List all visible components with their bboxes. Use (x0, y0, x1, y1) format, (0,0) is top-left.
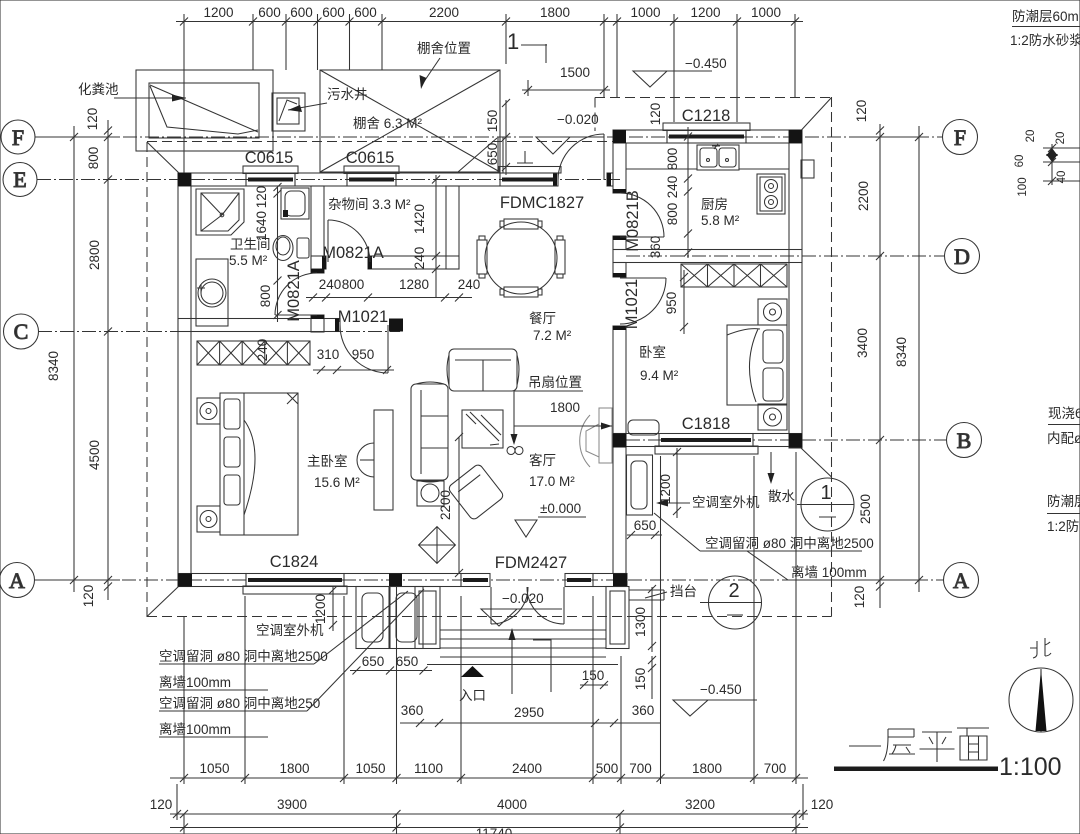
hip diagonal SW (147, 586, 179, 617)
svg-text:挡台: 挡台 (670, 584, 697, 599)
septic tank inner box (149, 83, 259, 138)
eave dashed outline top over kitchen (595, 97, 832, 99)
column F/4 (789, 130, 802, 143)
door M0821A leaf+arc (327, 220, 329, 262)
svg-text:15.6 M²: 15.6 M² (314, 475, 360, 490)
door FDMC1827 leaf+arc (603, 134, 605, 180)
svg-text:餐厅: 餐厅 (529, 311, 556, 326)
svg-text:800: 800 (665, 203, 680, 226)
storage south wall seg1 (311, 256, 326, 269)
axis circle A left (0, 563, 35, 598)
column C/2 (389, 319, 403, 332)
svg-text:5.5 M²: 5.5 M² (229, 253, 268, 268)
north label (1030, 638, 1051, 658)
svg-text:8340: 8340 (46, 351, 61, 381)
svg-text:1800: 1800 (692, 761, 722, 776)
svg-text:950: 950 (664, 292, 679, 315)
side table square (417, 481, 444, 506)
plant rotated square (419, 527, 456, 564)
svg-text:700: 700 (764, 761, 787, 776)
svg-text:2950: 2950 (514, 705, 544, 720)
svg-text:100: 100 (1017, 177, 1029, 196)
axis circle E left (3, 163, 37, 197)
south wall B seg1 (613, 434, 659, 447)
svg-text:M0821B: M0821B (624, 190, 642, 251)
svg-text:M0821A: M0821A (322, 244, 383, 262)
AC 650 650 dim line (350, 670, 432, 672)
svg-text:950: 950 (352, 347, 375, 362)
kitchen stove (757, 174, 785, 214)
eave dashed outline bottom (147, 616, 832, 618)
svg-text:600: 600 (290, 5, 313, 20)
svg-text:1100: 1100 (414, 761, 443, 776)
interior wall x3 bedroom2 west upper (613, 263, 626, 278)
hip diagonal at entry recess (458, 138, 497, 172)
door M0821B kitchen leaf+arc (620, 236, 664, 238)
title char 平 (920, 732, 955, 762)
svg-text:−0.450: −0.450 (685, 56, 727, 71)
south wall A seg3 (593, 574, 627, 587)
svg-text:3200: 3200 (685, 797, 715, 812)
porch right pillar (606, 587, 629, 649)
interior wall x3 kitchen west (613, 143, 626, 193)
column A/1 (178, 574, 192, 587)
svg-text:240: 240 (319, 277, 342, 292)
svg-text:棚舍位置: 棚舍位置 (417, 41, 471, 56)
door M0821 bath leaf+arc (275, 314, 317, 316)
fan dim lines 1800 (514, 390, 583, 392)
jamb FDMC left (553, 173, 557, 186)
axis circle D right (945, 239, 980, 274)
jamb FDMC right (607, 173, 611, 186)
svg-text:1050: 1050 (199, 761, 229, 776)
svg-text:20: 20 (1055, 132, 1067, 145)
svg-text:1200: 1200 (313, 594, 328, 624)
svg-text:厨房: 厨房 (701, 197, 728, 212)
dining chair east (555, 240, 565, 274)
svg-text:20: 20 (1025, 130, 1037, 143)
svg-text:D: D (954, 244, 970, 269)
south wall B seg2 (753, 434, 802, 447)
left dimension lines (73, 126, 75, 592)
svg-text:±0.000: ±0.000 (540, 501, 581, 516)
right AC 1200 dim line (676, 448, 678, 518)
svg-text:卧室: 卧室 (639, 344, 666, 360)
title underline (834, 767, 998, 772)
north wall E stub at kitchen (607, 173, 613, 186)
bathroom east wall lower (311, 315, 324, 332)
svg-text:1640: 1640 (254, 211, 269, 241)
svg-text:240: 240 (255, 339, 270, 362)
svg-text:F: F (954, 125, 966, 150)
right 1300 dim line (651, 587, 653, 652)
svg-text:2200: 2200 (856, 181, 871, 211)
master wardrobe (197, 341, 310, 365)
svg-text:污水井: 污水井 (327, 87, 368, 102)
washbasin (198, 279, 226, 307)
svg-text:1280: 1280 (399, 277, 429, 292)
right dim ticks (876, 133, 884, 141)
svg-text:310: 310 (317, 347, 340, 362)
svg-text:化粪池: 化粪池 (78, 82, 119, 97)
svg-text:9.4 M²: 9.4 M² (640, 368, 679, 383)
svg-text:360: 360 (401, 703, 424, 718)
svg-text:240: 240 (412, 247, 427, 270)
title char 一 (849, 745, 881, 747)
svg-text:空调留洞 ø80 洞中离地2500: 空调留洞 ø80 洞中离地2500 (159, 648, 328, 664)
svg-text:现浇60厚: 现浇60厚 (1048, 406, 1080, 421)
kitchen sink (697, 145, 739, 170)
kitchen north wall F seg1 (613, 130, 667, 143)
svg-text:2: 2 (728, 580, 739, 602)
axis circle F left (1, 120, 35, 154)
top dim ticks (180, 18, 188, 26)
svg-text:240: 240 (458, 277, 481, 292)
bottom dimension row 3 (170, 827, 808, 829)
axis circle F right (943, 120, 978, 155)
svg-text:150: 150 (582, 668, 605, 683)
shower stall (196, 189, 244, 235)
svg-text:离墙 100mm: 离墙 100mm (791, 564, 867, 580)
sewage well flap (279, 100, 297, 121)
jamb M1021a left (335, 319, 339, 332)
svg-text:空调室外机: 空调室外机 (256, 622, 324, 638)
south wall A seg2 (344, 574, 461, 587)
storage south wall seg2 (368, 256, 459, 269)
sewage well outer box (272, 93, 305, 131)
interior wall x3 living east below B (613, 447, 626, 574)
AC unit outdoor left no.2 (390, 587, 423, 649)
svg-text:棚舍 6.3 M²: 棚舍 6.3 M² (353, 116, 423, 131)
svg-text:C: C (14, 319, 29, 344)
entry step mark top (517, 151, 533, 163)
right 150 dim line (651, 656, 653, 699)
svg-text:120: 120 (852, 586, 867, 609)
svg-text:FDM2427: FDM2427 (495, 554, 567, 572)
kitchen vertical dim line (687, 127, 689, 258)
axis line B (626, 439, 946, 441)
dining dim line (306, 297, 472, 299)
svg-text:A: A (953, 568, 969, 593)
svg-text:3900: 3900 (277, 797, 307, 812)
svg-text:内配ø6钢: 内配ø6钢 (1047, 431, 1080, 446)
svg-text:M0821A: M0821A (285, 260, 303, 321)
jamb M1021b (613, 273, 626, 277)
bathroom east wall upper (311, 186, 324, 273)
svg-text:−0.020: −0.020 (502, 591, 544, 606)
svg-text:60: 60 (1014, 155, 1026, 168)
hip diagonal SE (801, 448, 832, 477)
svg-text:800: 800 (86, 147, 101, 170)
svg-text:2200: 2200 (438, 490, 453, 520)
svg-text:FDMC1827: FDMC1827 (500, 194, 584, 212)
svg-text:600: 600 (258, 5, 281, 20)
bedroom2 closet (681, 264, 787, 287)
toilet (273, 236, 293, 261)
svg-text:800: 800 (258, 285, 273, 308)
top dimension line (176, 21, 803, 23)
svg-text:1200: 1200 (658, 474, 673, 504)
svg-text:E: E (13, 167, 26, 192)
svg-text:1: 1 (507, 29, 519, 54)
bottom row1 ticks (180, 774, 188, 782)
north compass (1009, 668, 1073, 732)
entry arrow (461, 666, 484, 677)
svg-text:1200: 1200 (690, 5, 720, 20)
svg-text:M1021: M1021 (623, 279, 641, 329)
master top dim line (313, 369, 394, 371)
porch 360 2950 360 dim line (400, 722, 660, 724)
dining chair west (477, 240, 487, 274)
kitchen counter edge (626, 168, 697, 170)
column A/2 (389, 574, 402, 587)
svg-text:17.0 M²: 17.0 M² (529, 474, 575, 489)
jamb M0821B (613, 189, 626, 193)
left dim ticks (70, 133, 78, 141)
window FDM2427 left side-light (461, 574, 490, 587)
door FDM2427 right leaf+arc (563, 587, 565, 624)
svg-text:客厅: 客厅 (529, 452, 556, 468)
svg-text:7.2 M²: 7.2 M² (533, 328, 572, 343)
svg-text:离墙100mm: 离墙100mm (159, 674, 231, 690)
living 2200 dim line (458, 437, 460, 573)
svg-text:800: 800 (665, 148, 680, 171)
svg-text:−0.020: −0.020 (557, 112, 599, 127)
svg-text:700: 700 (629, 761, 652, 776)
bottom row2 ticks (173, 810, 181, 818)
svg-text:1200: 1200 (203, 5, 233, 20)
storage east wall (446, 186, 459, 269)
svg-text:入口: 入口 (459, 688, 486, 703)
column A/3 (613, 574, 627, 587)
svg-text:360: 360 (648, 236, 663, 259)
svg-text:800: 800 (342, 277, 365, 292)
svg-text:120: 120 (150, 797, 173, 812)
tv set living room (580, 408, 612, 467)
svg-text:1800: 1800 (540, 5, 570, 20)
right 650 dim line (627, 534, 662, 536)
master bed (220, 393, 298, 535)
svg-text:2200: 2200 (429, 5, 459, 20)
sewage well inner box (277, 98, 299, 124)
svg-text:2500: 2500 (858, 494, 873, 524)
svg-text:F: F (12, 125, 24, 150)
door FDM2427 left leaf+arc (490, 587, 492, 624)
west wall (178, 173, 191, 587)
svg-text:空调留洞 ø80 洞中离地2500: 空调留洞 ø80 洞中离地2500 (705, 535, 874, 551)
window FDMC1827 sill (499, 167, 561, 174)
svg-text:吊扇位置: 吊扇位置 (528, 375, 582, 390)
door M1021a master leaf+arc (387, 325, 389, 373)
svg-text:C0615: C0615 (346, 149, 395, 167)
svg-text:240: 240 (665, 176, 680, 199)
kitchen north wall F seg2 (746, 130, 802, 143)
svg-text:360: 360 (632, 703, 655, 718)
hip diagonal NE (801, 98, 832, 131)
axis line D (626, 255, 944, 257)
axis line E (37, 179, 620, 181)
window C0615 no.2 (344, 166, 399, 174)
bath vertical dim line (277, 187, 279, 322)
south wall A seg1 (178, 574, 246, 587)
dining chair south (504, 287, 538, 297)
master nightstand north (197, 398, 220, 424)
svg-text:−0.450: −0.450 (700, 682, 742, 697)
bedroom2 nightstand south (758, 404, 787, 430)
svg-text:空调留洞 ø80 洞中离地250: 空调留洞 ø80 洞中离地250 (159, 695, 320, 711)
dining table round (485, 222, 557, 294)
svg-text:C1818: C1818 (682, 415, 731, 433)
bottom row3 ticks (180, 824, 188, 832)
shed X box (320, 70, 500, 172)
porch 150 dim (580, 684, 608, 686)
title char 层 (884, 729, 916, 761)
jamb M0821A (322, 256, 326, 269)
svg-text:1000: 1000 (751, 5, 781, 20)
eave dashed outline right (831, 97, 833, 617)
window C1824 (243, 586, 347, 594)
flue box (801, 160, 814, 178)
window C1218 (663, 123, 750, 131)
svg-text:1:2防水: 1:2防水 (1047, 519, 1080, 534)
septic tank outer box (136, 70, 273, 151)
bedroom2 bench (628, 420, 659, 435)
porch left pillar (415, 587, 440, 649)
svg-text:C1218: C1218 (682, 107, 731, 125)
window FDM2427 right side-light (565, 574, 593, 587)
detail circle 1 (801, 478, 854, 531)
svg-text:5.8 M²: 5.8 M² (701, 213, 740, 228)
svg-text:150: 150 (633, 668, 648, 691)
svg-text:120: 120 (811, 797, 834, 812)
detail circle 2 (709, 576, 762, 629)
bedroom2 950 dim line (683, 270, 685, 334)
AC unit outdoor right (627, 455, 653, 515)
svg-text:1500: 1500 (560, 65, 590, 80)
svg-text:150: 150 (485, 110, 500, 133)
curb 挡台 lines (629, 589, 664, 591)
window C0615 no.1 (243, 166, 298, 174)
bedroom2 bed (727, 325, 787, 405)
svg-text:1420: 1420 (412, 204, 427, 234)
title char 面 (957, 728, 989, 760)
svg-text:650: 650 (634, 518, 657, 533)
svg-text:1800: 1800 (279, 761, 309, 776)
svg-text:4500: 4500 (87, 440, 102, 470)
column B/4 (789, 434, 802, 448)
svg-text:C0615: C0615 (245, 149, 294, 167)
svg-text:离墙100mm: 离墙100mm (159, 721, 231, 737)
right dimension lines (879, 124, 881, 608)
wall D (613, 250, 802, 263)
svg-text:A: A (9, 568, 25, 593)
hip diagonal NW (147, 142, 180, 174)
svg-text:4000: 4000 (497, 797, 527, 812)
svg-text:120: 120 (254, 186, 269, 209)
axis circle C left (4, 314, 39, 349)
svg-text:防潮层60: 防潮层60 (1047, 494, 1080, 509)
master dresser (374, 410, 393, 510)
washing machine bathroom (281, 188, 309, 219)
entry recess west wall (497, 137, 499, 173)
washbasin counter (196, 259, 228, 326)
svg-text:空调室外机: 空调室外机 (692, 494, 760, 510)
svg-text:120: 120 (854, 100, 869, 123)
AC left 1200 dim line (332, 587, 334, 631)
svg-text:650: 650 (362, 654, 385, 669)
axis circle B right (947, 423, 982, 458)
stair up mark (511, 632, 513, 694)
svg-text:40: 40 (1056, 171, 1068, 184)
svg-text:2400: 2400 (512, 761, 542, 776)
eave dashed line over north wall (147, 141, 613, 143)
dining chair north (504, 219, 538, 229)
svg-text:主卧室: 主卧室 (307, 453, 348, 469)
interior wall x3 bedroom2 west lower (613, 326, 626, 434)
north char 北 (1030, 638, 1051, 658)
svg-text:1:2防水砂浆: 1:2防水砂浆 (1010, 33, 1080, 48)
column E/1 (178, 173, 191, 186)
svg-text:3400: 3400 (855, 328, 870, 358)
eave detail dims (1043, 144, 1080, 185)
svg-text:120: 120 (648, 103, 663, 126)
svg-text:600: 600 (322, 5, 345, 20)
north wall E seg2 (295, 173, 347, 186)
svg-text:1300: 1300 (633, 607, 648, 637)
tea table hatched (462, 410, 503, 448)
wall C (178, 319, 340, 332)
axis line A (34, 579, 943, 581)
svg-text:防潮层60mm厚: 防潮层60mm厚 (1012, 9, 1080, 24)
bottom dimension row 2 (170, 813, 808, 815)
svg-text:1000: 1000 (630, 5, 660, 20)
svg-text:B: B (957, 428, 972, 453)
svg-text:8340: 8340 (894, 337, 909, 367)
jamb M0821 bath (311, 269, 324, 273)
svg-text:1:100: 1:100 (999, 753, 1062, 781)
sofa three-seat west (411, 384, 448, 480)
axis circle A right (944, 563, 979, 598)
svg-text:1800: 1800 (550, 400, 580, 415)
svg-text:120: 120 (85, 108, 100, 131)
bottom dimension row 1 (170, 777, 808, 779)
eave dashed outline left (146, 142, 148, 617)
bottom row1 extension lines (183, 617, 185, 784)
window C1818 (655, 446, 758, 454)
window FDMC1827 fixed part (500, 173, 558, 186)
axis line F (35, 136, 943, 138)
storage vertical dim line (435, 175, 437, 298)
svg-text:650: 650 (396, 654, 419, 669)
svg-text:散水: 散水 (768, 489, 796, 504)
top extension lines (183, 14, 185, 173)
svg-text:120: 120 (81, 585, 96, 608)
svg-text:C1824: C1824 (270, 553, 319, 571)
door M1021b bedroom2 leaf+arc (620, 277, 666, 279)
svg-text:杂物间 3.3 M²: 杂物间 3.3 M² (328, 197, 411, 212)
svg-text:1: 1 (820, 482, 831, 504)
master nightstand south (197, 506, 220, 532)
ceiling fan dot (507, 447, 515, 455)
AC unit outdoor left no.1 (356, 587, 389, 649)
north wall E seg3 (396, 173, 500, 186)
entry steps (440, 629, 606, 631)
svg-text:500: 500 (596, 761, 619, 776)
column F/3 (613, 130, 626, 143)
svg-text:600: 600 (354, 5, 377, 20)
svg-text:2800: 2800 (87, 240, 102, 270)
svg-text:M1021: M1021 (338, 308, 388, 326)
